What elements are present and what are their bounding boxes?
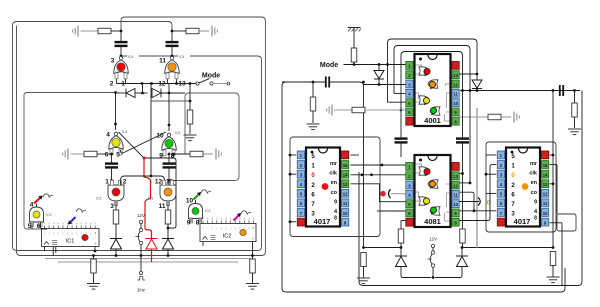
svg-text:4081: 4081 bbox=[424, 217, 441, 226]
svg-text:Mode: Mode bbox=[320, 62, 338, 69]
ground G1 (rotated) bbox=[73, 26, 78, 37]
switch S2 bbox=[136, 228, 143, 244]
LED drop green bbox=[430, 107, 436, 115]
resistor R4 bbox=[84, 151, 97, 157]
wire frame loop D (right inner) bbox=[174, 93, 239, 181]
junction bbox=[140, 254, 143, 257]
wire bus y180 bbox=[121, 176, 165, 180]
gate IC3d body bbox=[189, 204, 203, 219]
svg-text:13: 13 bbox=[543, 182, 548, 187]
wire bbox=[115, 249, 117, 256]
gate IC3c body bbox=[30, 207, 44, 222]
wire bbox=[556, 165, 558, 214]
junction bbox=[552, 154, 555, 157]
svg-text:15: 15 bbox=[343, 163, 348, 168]
svg-text:co: co bbox=[331, 190, 338, 196]
diode D1 bbox=[126, 89, 135, 98]
diode D2 bbox=[152, 89, 161, 98]
IC U4 4081 body bbox=[415, 155, 451, 227]
wire bbox=[462, 91, 464, 139]
junction bbox=[378, 83, 381, 86]
ground G7 bbox=[246, 284, 259, 290]
wire bbox=[252, 273, 254, 283]
svg-text:10: 10 bbox=[453, 202, 458, 207]
wire bbox=[213, 83, 227, 85]
LED orange L2 bbox=[168, 63, 176, 71]
junction bbox=[168, 92, 171, 95]
wire frame loop A (left panel outer) bbox=[13, 22, 262, 251]
wire bbox=[476, 74, 478, 80]
svg-text:12: 12 bbox=[453, 183, 458, 188]
ground G13 bbox=[357, 278, 370, 284]
resistor R15 bbox=[398, 229, 404, 243]
IC U2 4017 body bbox=[306, 148, 340, 227]
svg-text:mr: mr bbox=[530, 161, 538, 167]
pin box bbox=[172, 150, 175, 156]
junction bbox=[400, 246, 403, 249]
wire bbox=[476, 89, 478, 91]
wire vertical bbox=[168, 84, 170, 94]
op gate IC4c body bbox=[109, 136, 123, 150]
junction bbox=[110, 153, 113, 156]
capacitor C3 bbox=[105, 164, 118, 168]
svg-text:4: 4 bbox=[106, 132, 110, 139]
wire bbox=[462, 143, 464, 229]
wire cap line right bbox=[460, 90, 580, 92]
wire gate top bbox=[36, 204, 38, 208]
wire bbox=[353, 62, 355, 65]
LED drop red bbox=[424, 168, 430, 176]
svg-text:5: 5 bbox=[116, 152, 120, 159]
wire bbox=[167, 249, 169, 256]
junction bbox=[167, 227, 170, 230]
LED green L8 bbox=[192, 208, 199, 215]
ground G12 (rotated) bbox=[514, 112, 519, 123]
junction bbox=[115, 254, 118, 257]
ground G11 bbox=[568, 129, 581, 135]
svg-text:9: 9 bbox=[334, 199, 337, 205]
U4 internal wires bbox=[416, 164, 450, 221]
pin box bbox=[199, 218, 202, 223]
signal arrow blue bbox=[68, 217, 76, 225]
U4 gate 4 bbox=[430, 207, 440, 215]
junction bbox=[168, 179, 171, 182]
resistor R16 bbox=[361, 253, 367, 267]
wire frame loop B (left panel) bbox=[17, 17, 266, 256]
wire gray right bbox=[460, 116, 489, 118]
wire bbox=[486, 192, 496, 194]
squiggle bbox=[241, 211, 251, 215]
svg-text:8: 8 bbox=[196, 220, 200, 227]
svg-text:IC2: IC2 bbox=[223, 234, 232, 240]
LED drop orange bbox=[429, 81, 435, 89]
junction bbox=[141, 82, 144, 85]
resistor R3 bbox=[187, 110, 193, 124]
capacitor C2 bbox=[166, 42, 179, 46]
switch S1 Mode bbox=[196, 79, 213, 86]
junction bbox=[552, 89, 555, 92]
svg-text:10: 10 bbox=[343, 211, 348, 216]
svg-text:15: 15 bbox=[543, 163, 548, 168]
wire bbox=[171, 31, 173, 42]
wire pin9 link bbox=[460, 210, 497, 212]
svg-text:3Hz: 3Hz bbox=[137, 288, 146, 293]
svg-text:12V: 12V bbox=[429, 237, 437, 242]
svg-text:1: 1 bbox=[105, 179, 109, 186]
svg-text:IC4: IC4 bbox=[122, 130, 128, 134]
wire pin8 bbox=[199, 219, 201, 223]
wire bbox=[140, 224, 142, 229]
junction bbox=[150, 82, 153, 85]
IC U3 4017 body bbox=[506, 148, 540, 227]
svg-text:clk: clk bbox=[529, 171, 538, 177]
wire bbox=[401, 220, 406, 222]
squiggle bbox=[201, 190, 211, 194]
svg-text:4001: 4001 bbox=[424, 116, 441, 125]
wire cross 1 bbox=[121, 132, 167, 153]
IC1 module bbox=[42, 222, 100, 247]
wire IC1 out bbox=[94, 247, 96, 252]
wire bbox=[552, 266, 554, 277]
pin box bbox=[115, 201, 118, 206]
wire bbox=[203, 153, 213, 155]
wire bbox=[115, 224, 117, 238]
diode D4 bbox=[110, 239, 122, 250]
wire bbox=[486, 173, 496, 175]
wire pin8 link bbox=[460, 165, 497, 221]
junction bbox=[370, 173, 373, 176]
wire bbox=[252, 256, 254, 260]
svg-text:5: 5 bbox=[28, 223, 32, 230]
junction bbox=[469, 182, 472, 185]
wire bbox=[172, 30, 186, 32]
frame 4001 loop 2 bbox=[394, 46, 470, 94]
pin box bbox=[124, 73, 127, 79]
wire IC1 out bbox=[44, 247, 46, 252]
junction bbox=[552, 246, 555, 249]
svg-text:10: 10 bbox=[186, 198, 194, 205]
svg-text:14: 14 bbox=[343, 172, 348, 177]
svg-text:Mode: Mode bbox=[202, 73, 220, 80]
wire pin4 link bbox=[394, 92, 406, 94]
svg-text:11: 11 bbox=[543, 201, 548, 206]
svg-text:4017: 4017 bbox=[314, 217, 331, 226]
capacitor C1 bbox=[115, 42, 128, 46]
op gate IC4b body bbox=[165, 60, 179, 74]
LED drop orange bbox=[429, 181, 435, 189]
svg-text:13: 13 bbox=[178, 81, 186, 88]
wire gray bus lower 1 bbox=[45, 258, 251, 260]
wire bbox=[168, 93, 170, 131]
ground G4 (rotated) bbox=[63, 149, 68, 160]
frame 4001 loop 1 bbox=[388, 39, 478, 102]
junction bbox=[432, 276, 435, 279]
LED drop green bbox=[430, 207, 436, 215]
junction bbox=[461, 89, 464, 92]
wire to clock bbox=[140, 256, 142, 272]
wire red power bbox=[144, 158, 152, 238]
junction bbox=[168, 124, 171, 127]
wire bbox=[550, 154, 554, 156]
wire bbox=[111, 30, 121, 32]
svg-text:4017: 4017 bbox=[514, 217, 531, 226]
U1 gate 3 bbox=[419, 96, 429, 104]
wire bbox=[400, 143, 402, 157]
pin box bbox=[167, 201, 170, 206]
pin box bbox=[39, 221, 42, 226]
LED drop yellow bbox=[423, 97, 429, 105]
wire bbox=[400, 243, 402, 256]
junction bbox=[573, 89, 576, 92]
wire bbox=[97, 153, 112, 155]
wire pin6 bbox=[41, 222, 48, 229]
svg-text:14: 14 bbox=[543, 172, 548, 177]
junction bbox=[189, 100, 192, 103]
gate IC4b bubble bbox=[170, 57, 173, 60]
junction bbox=[469, 89, 472, 92]
svg-text:12: 12 bbox=[343, 192, 348, 197]
frame 4001 loop 3 bbox=[401, 52, 463, 111]
wire IC2 out bbox=[252, 242, 254, 256]
wire bbox=[115, 201, 117, 210]
wire bbox=[400, 221, 402, 230]
junction bbox=[361, 173, 364, 176]
terminal bbox=[139, 220, 142, 223]
svg-text:IC3: IC3 bbox=[46, 213, 52, 217]
node C1 junction bbox=[120, 30, 123, 33]
wire red power 2 bbox=[151, 249, 153, 262]
wire bbox=[460, 182, 471, 184]
svg-text:13: 13 bbox=[453, 174, 458, 179]
junction bbox=[114, 123, 117, 126]
junction bbox=[171, 55, 174, 58]
wire pin2 bbox=[116, 73, 118, 84]
LED red L5 bbox=[112, 188, 120, 196]
wire bbox=[460, 73, 478, 75]
node C2 junction bbox=[171, 30, 174, 33]
svg-text:11: 11 bbox=[343, 201, 348, 206]
U1 internal wires bbox=[416, 65, 450, 121]
svg-text:IC4: IC4 bbox=[128, 55, 134, 59]
pin box bbox=[111, 180, 114, 185]
svg-text:10: 10 bbox=[543, 211, 548, 216]
wire pin13 bbox=[176, 73, 178, 84]
wire bbox=[168, 168, 170, 186]
frame around 4017 right bbox=[486, 142, 556, 232]
junction bbox=[172, 153, 175, 156]
resistor R10 bbox=[351, 48, 357, 62]
wire bbox=[351, 183, 380, 185]
wire line y247 right bbox=[462, 247, 553, 249]
diode D5 bbox=[162, 239, 174, 250]
ground G2 (rotated) bbox=[212, 26, 217, 37]
wire bbox=[140, 245, 142, 256]
svg-text:3: 3 bbox=[110, 203, 114, 210]
wire pin5 bbox=[31, 222, 33, 229]
IC2 module bbox=[200, 217, 256, 242]
svg-text:13: 13 bbox=[343, 182, 348, 187]
wire IC2 out bbox=[202, 242, 204, 247]
LED yellow L3 bbox=[112, 138, 120, 146]
diode D8 bbox=[395, 256, 407, 267]
diode D6 bbox=[374, 71, 384, 80]
junction bbox=[189, 82, 192, 85]
wire arrow2 bbox=[460, 201, 480, 203]
wire bbox=[199, 30, 209, 32]
wire bbox=[462, 243, 464, 248]
wire rail right bbox=[435, 267, 462, 278]
wire pin2 bbox=[120, 181, 122, 186]
wire bbox=[81, 30, 99, 32]
resistor R1 bbox=[98, 28, 111, 34]
svg-text:2: 2 bbox=[123, 179, 127, 186]
wire bbox=[152, 100, 191, 102]
wire bbox=[401, 267, 431, 278]
junction bbox=[353, 63, 356, 66]
wire bbox=[378, 80, 380, 85]
wire bbox=[115, 93, 117, 130]
diode D3 red bbox=[146, 239, 158, 250]
wire vertical bbox=[142, 84, 144, 94]
svg-text:IC4: IC4 bbox=[179, 55, 185, 59]
junction bbox=[312, 81, 315, 84]
resistor R13 bbox=[572, 103, 578, 117]
wire bbox=[312, 111, 314, 123]
wire bbox=[351, 164, 406, 166]
wire bbox=[189, 84, 191, 111]
wire gray bus lower 2 bbox=[58, 261, 238, 263]
wire bbox=[167, 201, 169, 210]
capacitor C7 bbox=[395, 139, 408, 143]
LED green L4 bbox=[165, 139, 173, 147]
loop small bbox=[557, 214, 576, 231]
svg-text:9: 9 bbox=[534, 199, 537, 205]
ground G9 bbox=[307, 124, 320, 130]
ground G8 (hatched) bbox=[348, 28, 362, 32]
wire bbox=[501, 116, 511, 118]
wire bbox=[550, 164, 558, 166]
svg-text:12: 12 bbox=[158, 81, 166, 88]
svg-text:12: 12 bbox=[453, 82, 458, 87]
pin box bbox=[119, 180, 122, 185]
junction bbox=[167, 254, 170, 257]
switch S3 bbox=[428, 251, 435, 267]
wire bus y83 bbox=[117, 83, 197, 85]
wire bbox=[334, 109, 352, 111]
wire IC1 out bbox=[55, 247, 57, 254]
wire mode line bbox=[344, 64, 406, 66]
wire stub bbox=[290, 154, 296, 156]
wire bbox=[174, 153, 191, 155]
wire bbox=[116, 92, 127, 94]
svg-text:10: 10 bbox=[453, 101, 458, 106]
node red tap bbox=[143, 157, 146, 160]
wire bbox=[111, 154, 113, 164]
wire bbox=[552, 91, 554, 248]
wire bbox=[111, 168, 113, 186]
junction bbox=[362, 246, 365, 249]
junction bbox=[168, 153, 171, 156]
wire bbox=[460, 173, 463, 175]
diode D7 bbox=[472, 80, 482, 89]
junction bbox=[386, 63, 389, 66]
IC U4 pins bbox=[406, 163, 459, 227]
wire frame loop C (left inner) bbox=[24, 93, 115, 230]
arrowhead bbox=[478, 198, 480, 206]
wire bbox=[167, 224, 169, 238]
wire bbox=[351, 154, 360, 156]
resistor R12 bbox=[352, 107, 365, 113]
junction bbox=[251, 254, 254, 257]
wire bbox=[351, 174, 406, 176]
wire bbox=[120, 31, 122, 42]
junction bbox=[289, 154, 292, 157]
junction bbox=[473, 209, 476, 212]
label IC4 bbox=[127, 53, 139, 59]
clock glyph bbox=[138, 277, 146, 280]
wire frame right outer bbox=[282, 86, 565, 292]
wire gate top bbox=[195, 200, 197, 204]
wire bbox=[353, 28, 355, 49]
IC U1 pins bbox=[406, 62, 459, 126]
wire bbox=[469, 91, 471, 183]
svg-text:clk: clk bbox=[329, 171, 338, 177]
junction bbox=[94, 250, 97, 253]
LED orange L6 bbox=[164, 188, 172, 196]
svg-text:IC3: IC3 bbox=[96, 197, 102, 201]
wire bbox=[550, 183, 554, 185]
label IC4 bbox=[178, 53, 190, 59]
resistor R7 bbox=[165, 210, 171, 224]
junction bbox=[378, 63, 381, 66]
pin box bbox=[175, 73, 178, 79]
junction bbox=[381, 164, 384, 167]
signal arrow red bbox=[34, 195, 43, 203]
svg-text:12: 12 bbox=[155, 179, 163, 186]
junction bbox=[552, 182, 555, 185]
svg-text:8: 8 bbox=[334, 216, 337, 222]
wire bbox=[550, 222, 563, 224]
terminal bbox=[431, 244, 434, 247]
ground G10 (rotated) bbox=[327, 105, 332, 116]
junction bbox=[120, 55, 123, 58]
wire bbox=[432, 248, 434, 252]
ground G3 bbox=[184, 135, 197, 141]
wire bbox=[312, 82, 314, 97]
op gate IC4d body bbox=[162, 137, 176, 151]
wire bbox=[432, 267, 434, 278]
LED red L1 bbox=[117, 63, 125, 71]
wire diode branch bbox=[378, 65, 380, 71]
svg-text:12V: 12V bbox=[137, 213, 145, 218]
svg-text:en: en bbox=[331, 180, 338, 186]
wire bbox=[172, 180, 176, 182]
junction bbox=[114, 91, 117, 94]
wire bbox=[363, 267, 365, 278]
svg-text:IC3: IC3 bbox=[148, 197, 154, 201]
IC U2 pins bbox=[297, 151, 348, 226]
signal arrow magenta bbox=[234, 213, 242, 221]
pin box bbox=[171, 180, 174, 185]
gate IC4d bubble bbox=[167, 133, 170, 136]
wire bbox=[135, 92, 148, 94]
wire stub bbox=[290, 221, 296, 223]
wire bbox=[189, 124, 191, 134]
resistor R14 bbox=[488, 114, 501, 120]
pin box bbox=[163, 180, 166, 185]
junction bbox=[289, 220, 292, 223]
wire bbox=[486, 154, 496, 156]
